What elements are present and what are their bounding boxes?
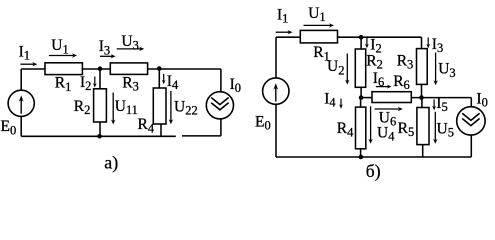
svg-text:а): а) [104,152,118,173]
svg-text:б): б) [366,161,381,181]
